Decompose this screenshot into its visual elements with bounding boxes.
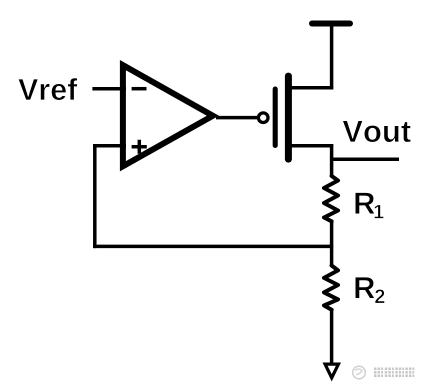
label Vref	[18, 78, 77, 100]
watermark text	[374, 368, 414, 378]
op-amp U1	[120, 60, 219, 171]
wire drain down to R1	[330, 144, 334, 177]
wire Vout stub	[332, 158, 399, 162]
gate bubble of PMOS M1	[258, 113, 268, 123]
PMOS M1 source lead	[289, 86, 333, 90]
label R2	[355, 277, 375, 298]
wire R2 to ground	[330, 309, 334, 364]
wire VDD rail to source	[330, 24, 334, 90]
resistor R2	[324, 266, 338, 310]
PMOS M1 drain lead	[289, 144, 333, 148]
wire R1 to R2 through node FB	[330, 221, 334, 267]
wire non-inverting input	[93, 144, 126, 148]
wire feedback vertical	[93, 144, 97, 248]
op-amp minus sign	[132, 87, 147, 91]
PMOS M1 channel bar	[285, 76, 292, 159]
PMOS M1 gate bar	[273, 89, 278, 146]
ground	[323, 363, 342, 382]
label Vout	[343, 121, 411, 143]
watermark logo	[353, 366, 366, 379]
wire Vref to op-amp inverting input	[92, 87, 126, 91]
wire op-amp output to gate bubble	[216, 116, 259, 120]
resistor R1	[324, 176, 338, 221]
wire feedback horizontal to node FB	[93, 245, 333, 249]
power rail bar VDD	[312, 21, 350, 27]
op-amp plus sign	[132, 140, 147, 154]
label R1	[355, 192, 375, 213]
